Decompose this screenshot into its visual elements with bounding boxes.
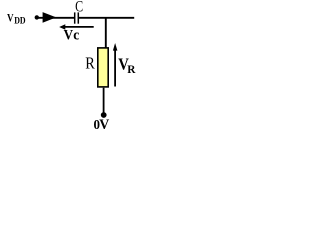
svg-text:C: C	[75, 0, 83, 16]
svg-text:V: V	[64, 27, 73, 44]
svg-text:R: R	[127, 64, 136, 76]
svg-text:R: R	[85, 54, 95, 73]
svg-text:c: c	[73, 27, 79, 44]
svg-text:DD: DD	[14, 16, 26, 26]
svg-text:V: V	[99, 117, 109, 133]
svg-text:V: V	[7, 13, 14, 25]
